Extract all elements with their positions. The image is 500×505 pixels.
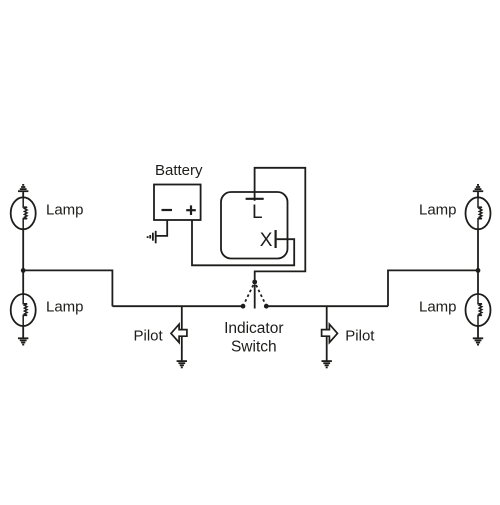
ground (bottom left) (18, 338, 28, 344)
flasher unit U1 (221, 192, 288, 259)
wire (477, 229, 479, 294)
wire (left pilot tap) (181, 306, 183, 361)
lamp (right bottom) (466, 294, 491, 326)
battery B1 (154, 185, 201, 221)
wire (477, 191, 479, 198)
pilot indicator right (arrow) (322, 324, 338, 342)
wire (22, 326, 24, 338)
wire (22, 229, 24, 294)
wire (right bus) (266, 305, 388, 307)
wire (left bus) (112, 305, 243, 307)
node (right lamps junction) (476, 268, 481, 273)
wire (477, 326, 479, 338)
battery minus terminal (162, 209, 173, 211)
node (left lamps junction) (21, 268, 26, 273)
node (switch left contact) (241, 304, 246, 309)
terminal L bar (246, 198, 264, 200)
svg-text:X: X (260, 230, 273, 251)
ground (top right) (473, 185, 483, 191)
wire (L feed) (255, 168, 306, 282)
ground (left pilot) (177, 361, 187, 367)
svg-text:Lamp: Lamp (419, 202, 457, 219)
svg-text:Indicator: Indicator (224, 320, 283, 337)
lamp (right top) (466, 197, 491, 229)
svg-text:L: L (252, 202, 263, 223)
lamp (left bottom) (11, 294, 36, 326)
ground (right pilot) (322, 361, 332, 367)
ground (battery, pointing left) (148, 231, 156, 244)
svg-text:Pilot: Pilot (134, 328, 164, 345)
terminal X bar (275, 230, 277, 248)
wire (right pilot tap) (326, 306, 328, 361)
node (switch right contact) (264, 304, 269, 309)
node (switch common) (252, 280, 257, 285)
wire (22, 191, 24, 198)
svg-text:Lamp: Lamp (46, 299, 84, 316)
ground (top left) (18, 185, 28, 191)
switch dashed throw right (256, 285, 266, 305)
ground (bottom right) (473, 338, 483, 344)
wire (battery plus to X) (192, 220, 294, 265)
wire (right step up) (388, 270, 478, 306)
svg-text:Lamp: Lamp (419, 299, 457, 316)
svg-text:Battery: Battery (155, 162, 203, 179)
wire (23, 270, 112, 306)
svg-text:Pilot: Pilot (345, 328, 375, 345)
switch lever (254, 285, 256, 309)
switch dashed throw left (244, 285, 254, 305)
svg-text:Switch: Switch (231, 338, 277, 355)
pilot indicator left (arrow) (171, 324, 187, 342)
battery plus terminal (186, 205, 196, 215)
svg-text:Lamp: Lamp (46, 202, 84, 219)
wire (battery minus to ground) (157, 220, 168, 236)
lamp (left top) (11, 197, 36, 229)
